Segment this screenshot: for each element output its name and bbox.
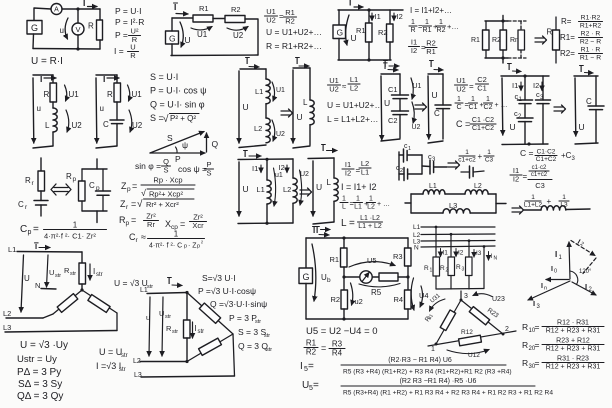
svg-text:Rr: Rr: [147, 220, 155, 229]
svg-text:L: L: [342, 203, 346, 210]
arrow U delta: [149, 297, 150, 356]
wire C1 to rail: [408, 154, 423, 156]
svg-text:str: str: [121, 353, 128, 359]
arrow U single C: [427, 76, 430, 139]
svg-text:U1: U1: [132, 90, 143, 99]
arrow U2 under R2: [227, 27, 248, 31]
inductor L of RL: [53, 108, 57, 132]
delta edge top resistor: [187, 293, 233, 335]
wire C stub: [442, 74, 444, 105]
svg-text:=: =: [180, 219, 185, 229]
svg-text:1: 1: [408, 146, 411, 152]
wire R to L: [52, 102, 54, 108]
svg-text:Ustr = Uy: Ustr = Uy: [17, 354, 57, 365]
svg-text:R23 + R12: R23 + R12: [556, 338, 590, 345]
svg-text:U1: U1: [276, 87, 285, 94]
svg-text:L3: L3: [449, 201, 457, 210]
svg-text:U2: U2: [329, 84, 339, 93]
svg-text:n: n: [544, 286, 547, 292]
svg-text:p: p: [127, 186, 131, 193]
wire L1-L2 network: [445, 193, 465, 195]
equivalence arrow parallel L: [300, 189, 309, 191]
arrow U single L2: [312, 161, 314, 216]
node R1 top: [367, 8, 370, 11]
stub Rp bottom: [96, 211, 98, 223]
galvanometer A bridge: [360, 271, 372, 283]
equivalence arrow L network: [512, 207, 521, 209]
node bottom parallel L: [265, 222, 268, 225]
svg-text:R: R: [456, 264, 461, 271]
delta edge bottom resistor: [187, 334, 233, 362]
svg-text:R5 (R3 +R4) (R1+R2) + R3 R4 (R: R5 (R3 +R4) (R1+R2) + R3 R4 (R1+R2)+R1 R…: [343, 369, 512, 376]
arrow U parallel L: [238, 162, 240, 216]
svg-text:U2: U2: [132, 121, 143, 130]
svg-text:1: 1: [369, 196, 373, 203]
branch R1 wire: [368, 10, 370, 23]
arrow U parallel: [346, 15, 349, 45]
svg-text:· Z: · Z: [188, 243, 197, 250]
svg-text:U: U: [243, 184, 249, 194]
svg-text:C =: C =: [520, 148, 534, 158]
arrow U series L: [238, 71, 240, 143]
svg-text:I2: I2: [397, 12, 403, 21]
wire bottom series L: [239, 145, 266, 148]
svg-text:=: =: [535, 322, 540, 332]
svg-text:R2: R2: [437, 27, 446, 34]
wire Rp bottom: [82, 210, 107, 212]
svg-text:SΔ = 3 Sy: SΔ = 3 Sy: [18, 379, 62, 390]
wire R4 stub: [407, 277, 409, 290]
svg-text:Q = U·I· sin φ: Q = U·I· sin φ: [150, 100, 205, 110]
svg-text:I2: I2: [513, 174, 519, 183]
svg-text:Q: Q: [212, 139, 219, 149]
resistor R: [97, 20, 103, 40]
svg-text:S = 3 S: S = 3 S: [238, 327, 266, 337]
svg-text:U: U: [185, 35, 191, 45]
wire R1 bridge stub: [343, 238, 345, 248]
inductor L1 network: [423, 190, 445, 194]
wire Rstr delta stub: [186, 293, 188, 321]
resistor R12: [459, 335, 482, 346]
svg-text:√: √: [141, 188, 146, 198]
svg-text:C1+C2: C1+C2: [472, 125, 494, 132]
svg-text:p: p: [197, 244, 200, 250]
svg-text:1: 1: [342, 196, 346, 203]
svg-text:=: =: [469, 82, 474, 91]
resistor Rstr star: [79, 263, 86, 284]
svg-text:I3: I3: [476, 250, 482, 257]
arrow I1 parallel L: [260, 165, 262, 173]
arrow U2 of RL: [66, 110, 69, 132]
node delta top: [185, 291, 188, 294]
arrow Istr delta: [192, 322, 194, 338]
svg-text:S: S: [206, 168, 211, 177]
svg-text:P² + Q²: P² + Q²: [170, 114, 196, 123]
capacitor C2 series: [392, 110, 409, 112]
arrow I3 bus: [473, 250, 475, 258]
svg-text:I2: I2: [411, 46, 417, 55]
svg-text:I: I: [533, 299, 535, 308]
wire C3 bottom: [542, 104, 544, 144]
svg-text:L1: L1: [429, 183, 437, 190]
wire Rstr to node: [81, 284, 83, 290]
stub right L network: [496, 203, 506, 205]
capacitor C3 network: [429, 160, 431, 174]
svg-text:str: str: [264, 333, 270, 339]
svg-text:U2: U2: [456, 84, 466, 93]
svg-text:1: 1: [430, 268, 433, 274]
node top parallel C: [523, 74, 526, 77]
svg-text:R: R: [522, 340, 528, 350]
svg-text:L: L: [45, 121, 50, 130]
svg-text:Q =√3·U·I·sinψ: Q =√3·U·I·sinψ: [210, 299, 267, 309]
wire top left: [172, 17, 193, 19]
svg-text:str: str: [172, 329, 178, 335]
svg-text:1: 1: [562, 194, 566, 201]
node star center: [80, 288, 83, 291]
svg-text:I: I: [322, 144, 324, 153]
arrow U single L: [292, 70, 294, 143]
arrow U series C: [380, 76, 383, 140]
inductor L single2: [334, 178, 338, 201]
svg-text:u: u: [146, 313, 150, 322]
svg-text:ψ: ψ: [182, 140, 188, 150]
wire galvanometer to R5: [372, 276, 379, 278]
svg-text:str: str: [96, 272, 103, 278]
resistor Rp: [81, 169, 83, 181]
svg-text:Rp · Xcp: Rp · Xcp: [153, 176, 182, 185]
wire bottom single L2: [313, 222, 334, 224]
arrow U4 bank: [411, 278, 414, 310]
wire bottom bridge: [306, 318, 408, 320]
svg-text:2: 2: [518, 114, 522, 120]
stub top: [502, 16, 504, 22]
svg-text:U: U: [316, 182, 322, 192]
svg-text:L2: L2: [283, 185, 291, 194]
svg-text:U = U: U = U: [99, 347, 122, 357]
arrow I1: [371, 13, 373, 21]
wire R branch: [52, 75, 54, 83]
equivalence arrow: [535, 37, 544, 39]
svg-text:+C: +C: [561, 151, 572, 160]
wire L2 stub parallel: [292, 159, 294, 178]
arrow IN bus: [488, 252, 490, 261]
svg-text:P: P: [175, 154, 181, 164]
svg-text:C: C: [586, 97, 592, 106]
svg-text:(R2 R3 −R1 R4) ·R5 ·U6: (R2 R3 −R1 R4) ·R5 ·U6: [400, 378, 477, 385]
svg-text:U2: U2: [233, 31, 244, 40]
svg-text:3: 3: [462, 267, 465, 273]
svg-text:U5: U5: [367, 256, 377, 265]
wire top RC: [96, 74, 117, 76]
wire R1 bottom: [368, 42, 370, 60]
svg-text:U = U1+U2+…: U = U1+U2+…: [327, 100, 383, 110]
wire bottom: [33, 48, 100, 51]
node bottom: [76, 47, 79, 50]
svg-text:U: U: [243, 102, 249, 112]
svg-text:1: 1: [73, 221, 78, 230]
arrow Ub bridge: [312, 244, 316, 301]
drop wire 2: [450, 234, 452, 257]
svg-text:str: str: [165, 314, 171, 320]
node L3 bus: [468, 239, 471, 242]
wire Rstr delta bottom: [186, 338, 188, 362]
svg-text:G: G: [337, 28, 344, 38]
branch R2 wire: [389, 10, 391, 24]
svg-text:U1: U1: [413, 83, 422, 90]
wire G stubs: [171, 18, 173, 31]
wire N star: [41, 288, 56, 291]
arrow U1 of RL: [65, 85, 67, 101]
svg-text:1: 1: [559, 255, 563, 261]
svg-text:C: C: [89, 181, 95, 190]
wire G left: [32, 34, 35, 49]
wire L2 star: [6, 317, 43, 319]
svg-text:L2: L2: [3, 309, 11, 318]
wire top branch: [399, 154, 404, 156]
svg-text:C: C: [456, 104, 461, 111]
svg-text:1: 1: [465, 149, 469, 156]
wire bottom branch: [399, 173, 404, 175]
wire left rail: [398, 152, 400, 180]
node L2 bus: [450, 233, 453, 236]
svg-text:U: U: [297, 112, 303, 122]
svg-text:p: p: [28, 229, 32, 236]
arrow U12: [447, 350, 489, 354]
wire top bridge: [306, 237, 408, 239]
arrow Ustr delta: [162, 297, 163, 356]
wire bottom RL: [33, 146, 53, 148]
svg-text:u: u: [37, 104, 41, 113]
arrow U equiv C: [574, 78, 577, 136]
wire A to node: [62, 8, 78, 10]
svg-text:L3: L3: [3, 323, 11, 332]
arrow U series: [180, 22, 183, 47]
wire bottom series C: [381, 139, 400, 141]
svg-text:str: str: [266, 347, 272, 353]
wire R2 right: [245, 19, 258, 55]
svg-text:L1: L1: [257, 185, 265, 194]
capacitor C equiv: [588, 105, 604, 107]
svg-text:0: 0: [554, 269, 557, 275]
svg-text:P =√3 U·I·cosψ: P =√3 U·I·cosψ: [198, 286, 256, 296]
svg-text:R1 · R: R1 · R: [581, 47, 601, 54]
svg-text:R5: R5: [371, 288, 382, 297]
wire R to C: [116, 102, 118, 120]
svg-text:I: I: [384, 60, 386, 69]
wire to galvanometer: [344, 276, 360, 278]
power triangle hypotenuse S: [150, 132, 204, 154]
svg-text:c1·c2: c1·c2: [532, 165, 547, 171]
svg-text:I: I: [83, 0, 85, 8]
wire bottom equiv C: [575, 143, 598, 144]
capacitor Cr: [34, 200, 48, 202]
resistor R1 bus: [433, 257, 440, 276]
phasor I2 dashed: [571, 241, 595, 256]
svg-text:R = R1+R2+…: R = R1+R2+…: [266, 41, 322, 51]
svg-text:U2: U2: [72, 121, 83, 130]
svg-text:I: I: [555, 250, 557, 259]
equivalence arrow series C: [415, 104, 424, 106]
node L1 bus: [435, 226, 438, 229]
svg-text:I1: I1: [443, 250, 449, 257]
wire R3 stub: [407, 238, 409, 248]
wire R2 stub: [343, 277, 345, 290]
ammeter A1: [51, 4, 62, 15]
svg-text:str: str: [55, 273, 61, 279]
svg-text:I: I: [349, 0, 351, 8]
svg-text:=: =: [132, 181, 137, 191]
wire Rstr stub: [81, 252, 83, 263]
svg-text:C1 ·C2: C1 ·C2: [472, 117, 494, 124]
svg-text:R2=: R2=: [560, 49, 575, 58]
svg-text:R1·R2: R1·R2: [581, 15, 601, 22]
wire R3 to node: [407, 266, 409, 277]
svg-text:I: I: [244, 150, 246, 159]
svg-text:u: u: [60, 26, 64, 35]
node bottom parallel: [367, 58, 370, 61]
svg-text:R: R: [66, 172, 72, 181]
arrow U23: [473, 294, 492, 297]
wire Rp top: [82, 168, 107, 170]
svg-text:U5 = U2 −U4 = 0: U5 = U2 −U4 = 0: [306, 326, 378, 337]
node delta bottom: [185, 360, 188, 363]
svg-text:R2: R2: [378, 28, 388, 37]
resistor Rstr delta: [184, 320, 191, 338]
svg-text:2: 2: [446, 268, 449, 274]
wire R1 to node: [343, 267, 345, 277]
svg-text:1: 1: [471, 96, 475, 103]
wire C1-C2 parallel: [524, 104, 526, 118]
wire top single C: [428, 73, 443, 75]
wire Rr-Cr: [40, 191, 42, 201]
arrow I2 parallel C: [541, 82, 543, 91]
wire C2 to rail: [408, 173, 422, 175]
wire C1 stub parallel: [524, 76, 526, 100]
svg-text:1: 1: [431, 346, 435, 353]
svg-text:str: str: [255, 319, 261, 325]
stub node 3: [460, 291, 462, 300]
node bridge mid-left: [342, 275, 345, 278]
svg-text:I: I: [313, 226, 315, 235]
svg-text:R: R: [547, 28, 553, 37]
svg-text:R: R: [88, 22, 94, 31]
svg-text:I: I: [316, 226, 318, 235]
wire left rail L network: [410, 194, 412, 213]
arrow Istr star: [89, 264, 91, 280]
svg-text:L2: L2: [367, 203, 375, 210]
svg-text:U: U: [432, 90, 438, 100]
svg-text:U: U: [49, 268, 54, 277]
wire L stub single2: [333, 158, 335, 178]
angle 120: [570, 271, 578, 285]
svg-text:G: G: [31, 23, 38, 33]
svg-text:I: I: [491, 253, 493, 260]
wire Rr top: [40, 158, 42, 171]
svg-text:3: 3: [572, 156, 576, 162]
source G3: [333, 25, 346, 39]
wire C equiv stub: [595, 76, 597, 106]
svg-text:I =: I =: [114, 46, 124, 56]
svg-text:C: C: [18, 200, 24, 209]
svg-text:N: N: [35, 281, 40, 290]
svg-text:C3: C3: [485, 157, 494, 164]
wire R1-R2: [213, 18, 225, 20]
inductor L2 network: [465, 190, 488, 194]
svg-text:c1+c2: c1+c2: [531, 172, 548, 178]
arrow I2 parallel L: [286, 165, 288, 173]
svg-text:P = U·I: P = U·I: [115, 6, 142, 16]
svg-text:L3: L3: [134, 372, 142, 379]
wire L2 bottom parallel: [292, 203, 294, 223]
svg-text:=: =: [356, 166, 361, 175]
wire top parallel C: [501, 75, 549, 77]
svg-text:=: =: [279, 12, 284, 21]
svg-text:4·π²· f ²· C: 4·π²· f ²· C: [149, 243, 182, 250]
node bridge bottom: [342, 317, 345, 320]
wire right rail: [421, 155, 423, 174]
wire 1-2: [428, 331, 516, 346]
arrow U5 bridge: [349, 262, 395, 267]
arrow I1 parallel C: [520, 82, 522, 91]
wire bottom bus: [485, 57, 508, 59]
svg-text:=: =: [535, 340, 540, 350]
svg-text:U2: U2: [300, 171, 309, 178]
resistor R1 bridge: [341, 248, 348, 267]
svg-text:R2: R2: [285, 16, 295, 25]
wire L1 delta: [147, 293, 187, 294]
wire L1 stub: [265, 69, 267, 79]
svg-text:PΔ = 3 Py: PΔ = 3 Py: [17, 367, 61, 378]
svg-text:r: r: [32, 180, 35, 187]
svg-text:2: 2: [579, 241, 585, 248]
svg-text:S: S: [167, 133, 173, 143]
svg-text:C: C: [20, 224, 27, 235]
svg-text:r: r: [136, 237, 139, 244]
wire bottom branch L: [411, 212, 443, 214]
arrow u1 parallel L: [274, 168, 276, 206]
resistor R1 parallel: [366, 23, 373, 42]
svg-text:I: I: [93, 267, 95, 276]
edge 3-1 wire: [436, 300, 461, 344]
svg-text:R1=: R1=: [560, 33, 575, 42]
svg-text:R1: R1: [199, 4, 209, 13]
svg-text:I: I: [300, 361, 303, 372]
svg-text:str: str: [198, 329, 205, 335]
svg-text:U12: U12: [468, 352, 480, 359]
svg-text:C1: C1: [469, 104, 478, 111]
svg-text:P = 3 P: P = 3 P: [229, 313, 257, 323]
source G bridge: [299, 268, 313, 284]
svg-text:√: √: [163, 113, 169, 125]
svg-text:A: A: [54, 7, 59, 14]
wire C2 bottom: [399, 115, 401, 138]
svg-text:3: 3: [432, 157, 436, 163]
svg-text:L =: L =: [341, 218, 355, 229]
wire left bridge: [305, 238, 307, 268]
svg-text:R: R: [522, 358, 528, 368]
svg-text:C3: C3: [535, 181, 545, 190]
svg-text:str: str: [70, 271, 76, 277]
wire L bottom single2: [333, 201, 335, 222]
svg-text:L = L1+L2+…: L = L1+L2+…: [327, 114, 378, 124]
wire G bridge bottom: [305, 284, 307, 320]
capacitor C1 parallel: [518, 99, 533, 101]
svg-text:p: p: [126, 220, 130, 227]
node bridge mid-right: [406, 275, 409, 278]
svg-text:C =: C =: [456, 119, 470, 129]
wire delta right vertex: [233, 334, 235, 376]
